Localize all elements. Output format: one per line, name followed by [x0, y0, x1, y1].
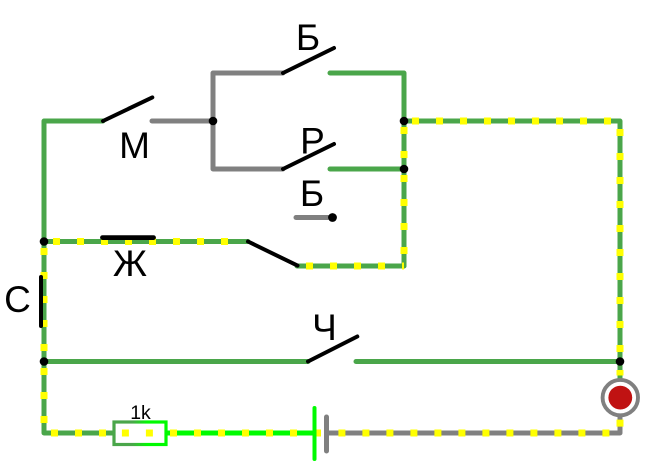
switch P blade (open): [283, 144, 334, 169]
switch B3 SPDT blade (down position): [248, 242, 298, 266]
current dashes: inside resistor: [117, 430, 162, 437]
current dashes: bright green lead: [166, 430, 321, 437]
wire: B1 right lead and drop (331,73)-(404,73)-(404,121): [330, 73, 404, 121]
wire: gray stub of SPDT upper throw: [296, 215, 328, 220]
svg-text:Б: Б: [296, 17, 320, 58]
wire: M switch left lead + left vertical (44,121)-(44,241): [44, 121, 103, 242]
current dashes: left vertical + bottom left: [44, 242, 114, 434]
battery V1 short plate (-): [324, 417, 329, 451]
wire: gray fork for B1/P switches: [213, 73, 283, 169]
svg-text:С: С: [4, 279, 31, 320]
svg-text:М: М: [119, 125, 150, 166]
junction node right of B1: [400, 117, 409, 126]
current dash: LED top stub: [617, 370, 624, 376]
wire: bright green battery+ lead (166,433)-(314,433): [166, 431, 315, 436]
wire: P right lead (331,169)-(404,169): [330, 167, 404, 172]
current dashes: lower throw wire: [297, 263, 404, 270]
switch C closed blade bar: [39, 277, 43, 326]
junction node at LED top: [616, 357, 625, 366]
wire: top right run (404,121)-(620,121)-(620,362): [404, 121, 620, 362]
svg-text:Б: Б: [300, 173, 324, 214]
switch Ch blade (open): [308, 337, 357, 362]
current dashes: Zh row: [44, 238, 242, 245]
switch M blade (open): [103, 97, 152, 121]
switch B1 blade (open): [283, 48, 334, 73]
battery V1 long plate (+): [313, 408, 317, 459]
wire: left vertical through C down to resistor (44,241)-(44,433)-(113,433): [44, 242, 114, 434]
current dashes: top right run: [404, 121, 620, 362]
wire: LED top stub: [618, 362, 623, 381]
LED D1 body ring: [603, 380, 638, 415]
wire: SPDT lower throw to mid vertical (297,266)-(404,266): [297, 264, 404, 269]
wire: Zh row pole wire (44,241)-(248,241): [44, 239, 248, 244]
current dashes: mid vertical: [401, 121, 408, 266]
svg-text:Ч: Ч: [312, 307, 337, 348]
wire: gray M right lead (152,121)-(213,121): [152, 119, 213, 124]
LED D1 lit red core: [608, 386, 632, 410]
junction node left Ch row: [40, 357, 49, 366]
svg-text:Ж: Ж: [113, 243, 147, 284]
svg-text:Р: Р: [300, 121, 325, 162]
junction node right of P: [400, 165, 409, 174]
wire: mid vertical (404,266)-(404,121): [402, 121, 407, 266]
unconnected terminal of SPDT upper throw: [328, 213, 337, 222]
wire: Ch row right lead (356,361)-(619,361): [356, 359, 619, 364]
current dashes: gray bottom run: [328, 416, 620, 433]
switch Zh closed blade bar: [103, 235, 154, 240]
wire: Ch row left lead (44,361)-(308,361): [44, 359, 308, 364]
wire: gray bottom run battery to LED (328,433)-(620,433)-(620,416): [328, 414, 620, 433]
svg-text:1k: 1k: [130, 402, 151, 424]
junction node at M fork: [209, 117, 218, 126]
junction node left Zh row: [40, 237, 49, 246]
